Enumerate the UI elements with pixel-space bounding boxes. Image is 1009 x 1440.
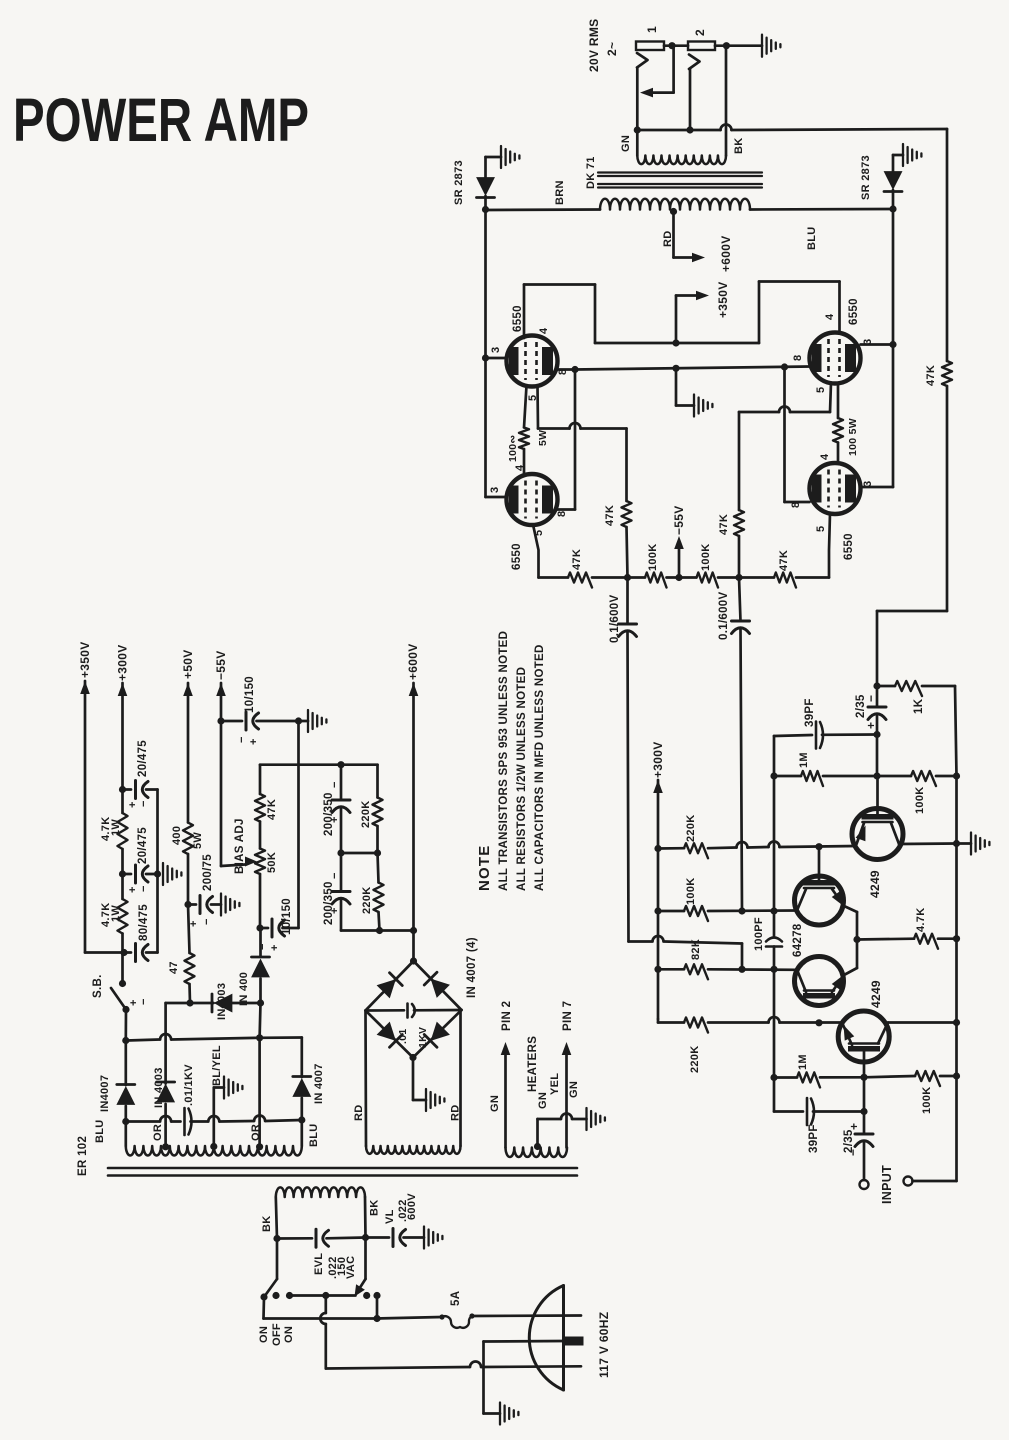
wire Q4 emitter [842, 1023, 854, 1046]
svg-text:+600V: +600V [406, 643, 420, 680]
label BLU left [94, 1119, 106, 1143]
label 2~ [605, 42, 619, 56]
label BLU (OT) [806, 226, 818, 250]
label 220K row-D [689, 1046, 701, 1074]
svg-text:3: 3 [490, 347, 502, 353]
label HEATERS [527, 1036, 539, 1092]
wire +50V rail upper [187, 683, 190, 823]
wire row-D [658, 1017, 842, 1022]
node 300rail-cap2 [119, 870, 126, 877]
wire jack2 down [689, 69, 692, 130]
label BL/YEL [211, 1045, 223, 1086]
svg-text:IN 4003: IN 4003 [153, 1067, 165, 1108]
wire coupling left to 82K row [629, 936, 743, 969]
svg-text:+: + [329, 817, 341, 823]
label 47K grid upper-right [718, 514, 730, 535]
svg-text:IN4007: IN4007 [99, 1075, 111, 1112]
label 100~ left [507, 434, 519, 462]
resistor 47K grid upper-right [734, 510, 744, 536]
svg-text:POWER AMP: POWER AMP [13, 86, 309, 154]
svg-text:ALL RESISTORS 1/2W UNLESS NOT: ALL RESISTORS 1/2W UNLESS NOTED [516, 667, 528, 891]
wire Q4 base [863, 1052, 866, 1078]
label pin5 V4 [815, 526, 827, 532]
node fb-1M [770, 772, 777, 779]
label .01/1KV [183, 1064, 195, 1106]
bridge edge BL [366, 1011, 414, 1058]
arrow -55V rail [216, 683, 226, 696]
svg-text:10/150: 10/150 [244, 676, 256, 713]
bridge edge TR [414, 961, 462, 1010]
svg-text:RD: RD [450, 1105, 462, 1122]
output terminal 2 box [688, 42, 715, 51]
capacitor 10/150 first [221, 712, 299, 730]
svg-text:BLU: BLU [308, 1123, 320, 1147]
node row-B fb tap [770, 907, 777, 914]
svg-text:−: − [236, 737, 248, 743]
wire right edge top [946, 129, 949, 361]
capacitor .01 1KV [366, 1004, 462, 1018]
label ON right [283, 1326, 295, 1343]
svg-text:4.7K: 4.7K [915, 908, 927, 932]
resistor 47K grid lower-left [568, 573, 592, 588]
label 100K bias right [700, 544, 712, 572]
wire heater right lead [565, 1054, 568, 1148]
plug body 117V [529, 1286, 563, 1391]
label +- 80/475 [128, 999, 150, 1006]
arrow +300V rail [118, 683, 128, 696]
wire -55V node to 100K [679, 576, 697, 579]
node jack2-wire [686, 126, 693, 133]
label +- 20/475 upper [127, 801, 150, 808]
label EVL [313, 1253, 325, 1275]
resistor 47K grid lower-right [774, 573, 796, 588]
resistor 220K row-D [684, 1018, 708, 1033]
wire feedback branch top [773, 736, 776, 776]
svg-text:47: 47 [168, 961, 180, 974]
svg-text:+: + [248, 739, 260, 745]
label 6550 V3 [848, 298, 860, 325]
resistor 100K bias left [645, 573, 666, 588]
node -55V tap [675, 574, 682, 581]
switch pole right [355, 1238, 381, 1300]
node BRN-diode [482, 206, 489, 213]
label DK 71 [585, 156, 597, 189]
node 1K-2/35 [873, 682, 880, 689]
wire SB down [124, 1010, 127, 1041]
svg-text:INPUT: INPUT [880, 1165, 894, 1204]
node OR2-net [257, 999, 264, 1006]
label -+ 10/150 first [236, 737, 260, 745]
bridge edge BR [413, 1010, 462, 1058]
label 0.1/600V right [718, 592, 730, 640]
node row-C jog tap [738, 966, 745, 973]
wire 47K to node B [739, 576, 774, 579]
label 4.7K upper [100, 817, 112, 841]
node emitter join [853, 936, 860, 943]
svg-text:39PF: 39PF [808, 1124, 820, 1153]
wire 1K row right [922, 685, 955, 688]
label 200/350 first [323, 792, 335, 836]
svg-text:BK: BK [369, 1200, 381, 1217]
capacitor 200/350 second [332, 853, 350, 931]
svg-text:2/35: 2/35 [843, 1129, 855, 1153]
wire rect bus [126, 1034, 302, 1077]
wire V2 grid to 47K [539, 576, 569, 579]
node bridge top [410, 957, 417, 964]
svg-text:5: 5 [815, 387, 827, 393]
capacitor 20/475 upper [123, 781, 158, 799]
wire feedback branch mid [773, 776, 776, 911]
wire +300V rail upper [121, 683, 124, 790]
diode IN4003 horizontal [212, 994, 232, 1013]
svg-text:1M: 1M [798, 752, 810, 768]
wire switch common [290, 1294, 356, 1297]
label 82K row-C [690, 939, 702, 960]
svg-text:47K: 47K [571, 549, 583, 570]
wire Q2 base [818, 847, 821, 880]
label 400 [171, 826, 183, 845]
svg-text:100∾: 100∾ [507, 434, 519, 462]
node 300rail-cap1 [119, 786, 126, 793]
node 39PF2-2/35 [860, 1108, 867, 1115]
wire V1 grid lead [536, 386, 539, 429]
bridge edge TL [366, 961, 414, 1011]
svg-text:VAC: VAC [345, 1256, 357, 1279]
resistor 1M input [797, 1072, 820, 1087]
capacitor 200/75 [188, 896, 221, 914]
label terminal 1 [645, 26, 659, 33]
capacitor VL .022 [366, 1229, 425, 1247]
node center tap RD [670, 208, 677, 215]
label 1M fb [798, 752, 810, 768]
svg-text:200/350: 200/350 [323, 881, 335, 925]
arrow +300V driver [653, 780, 663, 793]
svg-text:400: 400 [171, 826, 183, 845]
label 1KV [417, 1027, 429, 1048]
node cathode +350 tap [672, 365, 679, 372]
svg-text:BRN: BRN [554, 180, 566, 205]
wire 1M1 row [774, 775, 801, 778]
label IN 4007 (4) [466, 937, 478, 998]
wiper arrow 50K [245, 857, 257, 867]
svg-text:64278: 64278 [792, 923, 804, 957]
svg-text:20/475: 20/475 [137, 827, 149, 864]
svg-text:4: 4 [824, 313, 836, 320]
svg-text:+350V: +350V [78, 641, 92, 678]
label 20/475 lower [137, 827, 149, 864]
wire V4 pin8 [785, 501, 810, 504]
svg-text:0.1/600V: 0.1/600V [718, 592, 730, 640]
svg-text:1: 1 [645, 26, 659, 33]
svg-text:100 5W: 100 5W [847, 418, 859, 456]
wire plate bus left lower [484, 358, 487, 497]
label 200/75 [202, 854, 214, 891]
resistor 100 ohm 5W left [519, 428, 529, 450]
winding primary ER102 [276, 1187, 365, 1197]
svg-text:200/350: 200/350 [323, 792, 335, 836]
label 200/350 second [323, 881, 335, 925]
svg-text:2/35: 2/35 [855, 694, 867, 718]
svg-text:S.B.: S.B. [92, 974, 104, 998]
svg-text:+300V: +300V [116, 644, 130, 681]
svg-text:+: + [329, 908, 341, 914]
capacitor 100PF [766, 911, 782, 969]
node rail-220K [654, 845, 661, 852]
label -55V [672, 505, 686, 535]
svg-text:BL/YEL: BL/YEL [211, 1045, 223, 1086]
wire spark cap row [126, 1116, 181, 1121]
label 47K bias [266, 799, 278, 820]
label IN 4003 OR1 [153, 1067, 165, 1108]
node rail-100K [654, 907, 661, 914]
label IN4007 left [99, 1075, 111, 1112]
node tap OR2 [256, 1143, 263, 1150]
arrow +600V rail [409, 683, 419, 696]
label RD (OT) [662, 231, 674, 248]
wire emitter join bus [856, 912, 859, 968]
wire 300rail seg3 [121, 849, 124, 899]
wire 100ohm to V2 [523, 449, 526, 475]
wire BLU left branch [124, 1041, 127, 1086]
svg-text:39PF: 39PF [804, 698, 816, 727]
wire 4.7K to bus [938, 937, 957, 940]
svg-text:220K: 220K [689, 1046, 701, 1074]
wire spark cap row 2 [191, 1116, 302, 1122]
svg-text:ALL CAPACITORS IN MFD UNLESS N: ALL CAPACITORS IN MFD UNLESS NOTED [534, 644, 546, 891]
tube V2 6550 lower-left [507, 474, 558, 525]
label +- 200/350 first [329, 782, 341, 823]
label IN 4007 right [313, 1063, 325, 1104]
wire BK up [725, 46, 728, 156]
label 220K bleed second [361, 887, 373, 915]
svg-text:20V RMS: 20V RMS [587, 19, 601, 72]
capacitor EVL .022 [277, 1229, 366, 1247]
svg-text:BLU: BLU [94, 1119, 106, 1143]
wire bias gnd bus [297, 721, 300, 928]
svg-text:YEL: YEL [549, 1073, 561, 1095]
svg-text:100PF: 100PF [753, 917, 765, 951]
diode IN4007 right [292, 1077, 311, 1147]
label 220K bleed first [360, 801, 372, 829]
wire 39PF2 to node [813, 1110, 864, 1113]
label +600V [719, 235, 733, 272]
label GN right [568, 1081, 580, 1098]
wire bleed bottom [341, 912, 414, 934]
label VL [384, 1209, 396, 1224]
wire V2 grid lead [533, 525, 539, 578]
tube V1 6550 upper-left [507, 336, 558, 387]
wire jack1 down [636, 68, 639, 131]
svg-text:1W: 1W [110, 905, 122, 922]
wire Q2 emitter [832, 889, 857, 912]
arrow +50V rail [183, 683, 193, 696]
wire 4.7K feed [857, 937, 914, 940]
svg-text:EVL: EVL [313, 1253, 325, 1275]
tube V4 6550 lower-right [810, 463, 861, 514]
wire V1 pin4 screen lead [523, 285, 526, 339]
wire +600V rail [412, 683, 415, 961]
wire heater ct [538, 1114, 587, 1147]
node 4.7K bus [953, 935, 960, 942]
wire terminal2-ground [715, 44, 762, 47]
label 117 V 60HZ [597, 1312, 611, 1378]
wire BRN [486, 208, 601, 211]
winding RD [366, 1146, 460, 1154]
label GN ct [537, 1092, 549, 1109]
svg-text:117 V 60HZ: 117 V 60HZ [597, 1312, 611, 1378]
label - top cap [864, 695, 878, 702]
svg-text:47K: 47K [604, 505, 616, 526]
svg-text:+300V: +300V [651, 741, 665, 778]
wire V1 pin3 [486, 357, 507, 360]
wire 1M2 row right [820, 1076, 864, 1079]
label 64278 [792, 923, 804, 957]
wire V3 grid run [739, 407, 830, 510]
svg-text:200/75: 200/75 [202, 854, 214, 891]
output transformer core [598, 173, 762, 188]
svg-text:DK 71: DK 71 [585, 156, 597, 189]
wire 47K to node A [592, 576, 628, 579]
label +- 200/75 [188, 919, 213, 927]
svg-text:BK: BK [261, 1216, 273, 1233]
label 10/150 first [244, 676, 256, 713]
svg-text:BK: BK [733, 138, 745, 155]
label pin4 V2 [514, 464, 526, 471]
wire 100K1 right [936, 775, 957, 778]
label +- 200/350 second [329, 873, 341, 914]
label 47K grid lower-right [778, 550, 790, 571]
svg-text:1KV: 1KV [417, 1027, 429, 1048]
node row-A base tap [815, 843, 822, 850]
label 4.7K [915, 908, 927, 932]
label 47K grid upper-left [604, 505, 616, 526]
label terminal 2 [693, 29, 707, 36]
label 4249 Q4 [869, 980, 883, 1008]
wire 300rail seg2 [121, 790, 124, 814]
svg-text:10/150: 10/150 [281, 898, 293, 935]
svg-text:NOTE: NOTE [476, 845, 493, 891]
wire V3 pin3 [861, 343, 894, 346]
primary winding OT [600, 199, 750, 210]
label 5A [450, 1291, 462, 1306]
svg-text:PIN 7: PIN 7 [562, 1001, 574, 1031]
label pin3 V2 [489, 487, 501, 493]
resistor 100K fb [911, 771, 936, 786]
terminal INPUT gnd [904, 1177, 913, 1186]
node 50V bottom [186, 999, 193, 1006]
node junction terminal 2 [723, 42, 730, 49]
node -55V-10/150 [217, 717, 224, 724]
label BLU right [308, 1123, 320, 1147]
label 47 ohm [168, 961, 180, 974]
wire V1 pin8 [556, 368, 575, 371]
label 50K [266, 852, 278, 873]
switch S.B. [111, 980, 130, 1013]
svg-text:RD: RD [353, 1105, 365, 1122]
wire bias chain top [259, 765, 262, 794]
diode bridge TR [424, 972, 450, 998]
label IN 4003 OR2 [238, 972, 250, 1006]
svg-text:ON: ON [283, 1326, 295, 1343]
svg-text:IN 400: IN 400 [238, 972, 250, 1006]
wire row-A [658, 842, 856, 849]
wire bleeder mid [341, 852, 378, 855]
node row-D base tap [815, 1019, 822, 1026]
svg-text:4: 4 [819, 453, 831, 460]
wire V3 grid lead [830, 383, 831, 413]
svg-text:+: + [269, 945, 281, 951]
svg-text:−: − [138, 886, 150, 892]
label BK (secondary) [733, 138, 745, 155]
transformer core ER102 [108, 1168, 577, 1176]
note line 1 [498, 631, 510, 891]
svg-text:82K: 82K [690, 939, 702, 960]
node 39PF1 join [873, 731, 880, 738]
diode bridge BR [424, 1022, 450, 1048]
svg-text:IN 4007: IN 4007 [313, 1063, 325, 1104]
wire cap bus right [156, 790, 159, 953]
wire heater left lead [504, 1054, 507, 1148]
svg-text:IN4003: IN4003 [216, 983, 228, 1020]
label 4249 Q1 [868, 870, 882, 898]
arrow -55V [674, 536, 684, 549]
label -+ 10/150 second [257, 944, 281, 951]
node tap OR1 [162, 1143, 169, 1150]
label pin8 V3 [792, 355, 804, 361]
svg-text:2~: 2~ [605, 42, 619, 56]
resistor 220K bleed second [374, 883, 384, 913]
svg-text:0.1/600V: 0.1/600V [609, 595, 621, 643]
node 1M1-right [873, 772, 880, 779]
resistor 100 ohm 5W right [833, 418, 843, 443]
winding RD left lead [364, 1011, 367, 1147]
svg-text:220K: 220K [360, 801, 372, 829]
label - input cap [846, 1149, 860, 1156]
svg-text:5: 5 [815, 526, 827, 532]
svg-text:1K: 1K [913, 698, 925, 714]
label BRN [554, 180, 566, 205]
resistor 400 5W [183, 823, 193, 855]
diode IN4003 OR2 [251, 928, 270, 1003]
secondary winding 20V [637, 156, 726, 165]
node GN [634, 126, 641, 133]
wire primary left lead [276, 1197, 277, 1239]
wire row-C [658, 968, 797, 971]
wire plate bus right lower [892, 345, 895, 488]
capacitor 0.1/600V right [732, 578, 750, 912]
node switch common [322, 1292, 329, 1299]
resistor 47K grid upper-left [622, 501, 632, 527]
node row-C fb tap [770, 966, 777, 973]
label IN4003 horizontal [216, 983, 228, 1020]
svg-text:PIN 2: PIN 2 [501, 1001, 513, 1031]
svg-text:4: 4 [538, 327, 550, 334]
label ON left [258, 1326, 270, 1343]
label GN (secondary) [620, 135, 632, 152]
capacitor 2/35 input [855, 1134, 873, 1147]
wire 39PF1 right [822, 733, 877, 736]
svg-text:BLU: BLU [806, 226, 818, 250]
ground BLYEL [224, 1077, 242, 1099]
wire plate bus right [892, 209, 895, 345]
jack 2 chevron [689, 55, 700, 70]
label BIAS ADJ [234, 818, 246, 874]
wire GN to right edge [637, 125, 947, 131]
label 6550 V2 [511, 543, 523, 570]
label 10/150 second [281, 898, 293, 935]
output terminal 1 box [636, 42, 664, 51]
ground output [762, 35, 780, 57]
